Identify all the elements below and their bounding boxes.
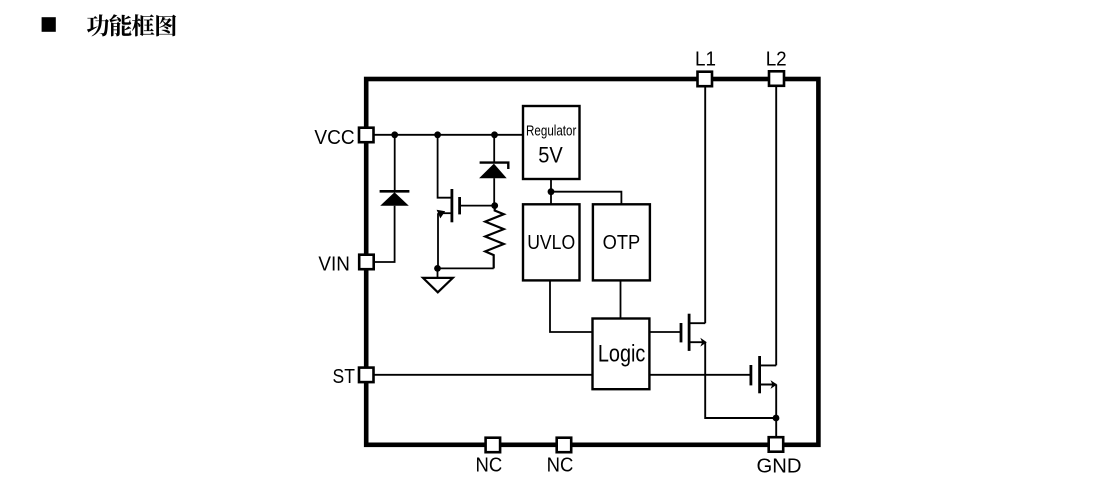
wire resistor bottom to ground node [438,267,494,269]
pin NC2 [557,438,572,453]
junction dot ground node [434,265,441,272]
transistor M1 (pass PMOS) [437,189,460,222]
wire M1 gate to zener/resistor node [461,205,495,207]
pin NC1 [486,438,501,453]
wire D1 anode to VCC [394,135,396,192]
wire Q2 source to GND pin [775,385,777,441]
pin VIN [359,255,374,270]
resistor R1 [485,206,504,269]
section title text 功能框图 [87,14,176,36]
wire M1 drain from VCC [438,135,451,198]
transistor Q1 (L1 driver NMOS) [681,314,707,351]
wire Q1 source to GND rail [705,342,776,418]
wire VCC rail from pin to regulator [370,134,523,136]
wire UVLO to Logic [550,280,592,332]
wire Logic to Q1 gate [649,331,680,333]
svg-text:ST: ST [333,365,356,388]
junction dot VCC/D2 [491,131,498,138]
transistor Q2 (L2 driver NMOS) [751,356,777,393]
junction dot VCC/D1 [391,131,398,138]
block U1 Regulator 5V [523,106,580,179]
wire Q2 drain to L2 pin [775,83,777,365]
wire Q1 drain to L1 pin [704,83,706,323]
wire D1 to VIN pin [374,206,395,262]
zener diode D2 [479,163,508,206]
svg-text:5V: 5V [538,142,563,167]
section title bullet [42,17,56,32]
pin GND [769,437,784,452]
junction dot regulator output [548,188,555,195]
svg-text:L2: L2 [766,47,787,70]
wire M1 source down to ground node [437,213,439,268]
svg-text:OTP: OTP [603,232,641,254]
block U3 OTP [593,204,650,280]
wire regulator output node [550,179,552,204]
svg-text:VIN: VIN [318,253,350,276]
svg-text:L1: L1 [695,47,716,70]
wire ST to Logic [370,374,592,376]
pin L2 [769,71,784,86]
svg-text:NC: NC [476,453,503,476]
IC boundary box [366,79,818,445]
pin ST [359,368,374,383]
wire D2 cathode to VCC [493,135,495,163]
pin VCC [359,128,374,143]
wire Logic to Q2 gate [649,374,750,376]
junction dot VCC/M1 [434,131,441,138]
svg-text:VCC: VCC [314,126,354,149]
ground symbol [423,268,453,292]
wire OTP to Logic [620,280,622,318]
svg-text:UVLO: UVLO [527,232,575,254]
block U2 UVLO [523,204,580,280]
pin L1 [698,72,713,87]
svg-text:Logic: Logic [598,340,646,367]
wire regulator output to OTP [551,192,621,205]
svg-text:NC: NC [547,453,574,476]
svg-text:Regulator: Regulator [526,123,576,139]
junction dot gate/zener/resistor [491,202,498,209]
svg-text:GND: GND [757,455,802,478]
diode D1 (VCC to VIN) [380,191,410,206]
junction dot GND rail [773,415,780,422]
block U4 Logic [593,319,650,390]
